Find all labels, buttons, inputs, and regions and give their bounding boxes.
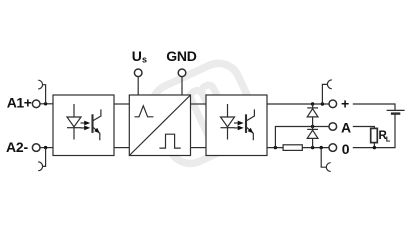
junction diode V1 top bbox=[311, 102, 314, 105]
wire R1 to terminal 0 bbox=[302, 147, 329, 149]
battery B1 bbox=[387, 110, 405, 113]
U1 phototransistor bbox=[93, 109, 101, 140]
wire GND to U2 bbox=[181, 77, 183, 95]
wire U3 to terminal plus bbox=[267, 103, 329, 105]
svg-text:U: U bbox=[132, 48, 142, 64]
svg-text:A: A bbox=[341, 120, 351, 136]
terminal plus bbox=[329, 100, 337, 108]
wire Us to U2 bbox=[137, 77, 139, 95]
wire U1 to U2 bottom bbox=[114, 147, 129, 149]
wire A1+ to U1 bbox=[40, 103, 53, 105]
junction diode column A bbox=[311, 125, 314, 128]
watermark logo frame bbox=[145, 56, 264, 171]
terminal A1+ bbox=[32, 100, 40, 108]
wire plus to battery bbox=[353, 104, 395, 110]
svg-text:GND: GND bbox=[166, 48, 196, 64]
plug contact A2- bbox=[38, 148, 45, 171]
wire U2 to U3 bottom bbox=[191, 147, 207, 149]
DC/DC converter U2 box bbox=[129, 95, 190, 156]
U1 LED bbox=[67, 104, 81, 140]
U2 square pulse symbol bbox=[159, 134, 180, 148]
terminal 0 bbox=[329, 144, 337, 152]
U2 analog spike symbol bbox=[135, 106, 154, 117]
diode V1 bbox=[307, 104, 318, 127]
terminal Us bbox=[134, 69, 142, 77]
optocoupler U3 box bbox=[206, 95, 267, 156]
wire A2- to U1 bbox=[40, 147, 53, 149]
svg-text:A2-: A2- bbox=[6, 139, 28, 155]
plug contact A1+ bbox=[38, 80, 45, 104]
watermark logo letter m bbox=[189, 83, 233, 140]
label Us bbox=[132, 48, 147, 65]
U2 diagonal bbox=[129, 95, 190, 156]
junction 0 plug branch bbox=[320, 146, 323, 149]
U3 phototransistor bbox=[246, 109, 254, 140]
wire A to load RL bbox=[353, 127, 375, 129]
junction A1+ plug branch bbox=[44, 102, 47, 105]
wire A feedback riser bbox=[275, 127, 329, 148]
U3 LED bbox=[221, 104, 235, 140]
terminal A bbox=[329, 123, 337, 131]
wire U3 to R1 bbox=[267, 147, 283, 149]
wire RL to 0 rail bbox=[373, 143, 375, 148]
label RL bbox=[379, 130, 391, 144]
wire U1 to U2 top bbox=[114, 103, 129, 105]
junction A feedback bbox=[274, 146, 277, 149]
svg-text:+: + bbox=[341, 96, 349, 112]
terminal GND bbox=[178, 69, 186, 77]
plug contact plus bbox=[322, 80, 331, 104]
plug contact 0 bbox=[321, 148, 331, 172]
junction plus plug branch bbox=[321, 102, 324, 105]
svg-text:0: 0 bbox=[342, 141, 350, 157]
wire battery to 0 rail bbox=[353, 114, 395, 148]
junction A2- plug branch bbox=[44, 146, 47, 149]
U3 light arrows bbox=[234, 121, 244, 131]
junction diode V2 bottom bbox=[311, 146, 314, 149]
svg-text:L: L bbox=[386, 134, 391, 143]
resistor R1 bbox=[283, 145, 302, 151]
optocoupler U1 box bbox=[53, 95, 114, 156]
svg-text:A1+: A1+ bbox=[7, 95, 32, 111]
diode V2 bbox=[307, 127, 318, 148]
svg-text:s: s bbox=[142, 54, 147, 64]
terminal A2- bbox=[32, 144, 40, 152]
junction RL 0 rail bbox=[373, 146, 376, 149]
load resistor RL bbox=[371, 128, 378, 142]
wire U2 to U3 top bbox=[191, 103, 207, 105]
U1 light arrows bbox=[81, 121, 91, 131]
